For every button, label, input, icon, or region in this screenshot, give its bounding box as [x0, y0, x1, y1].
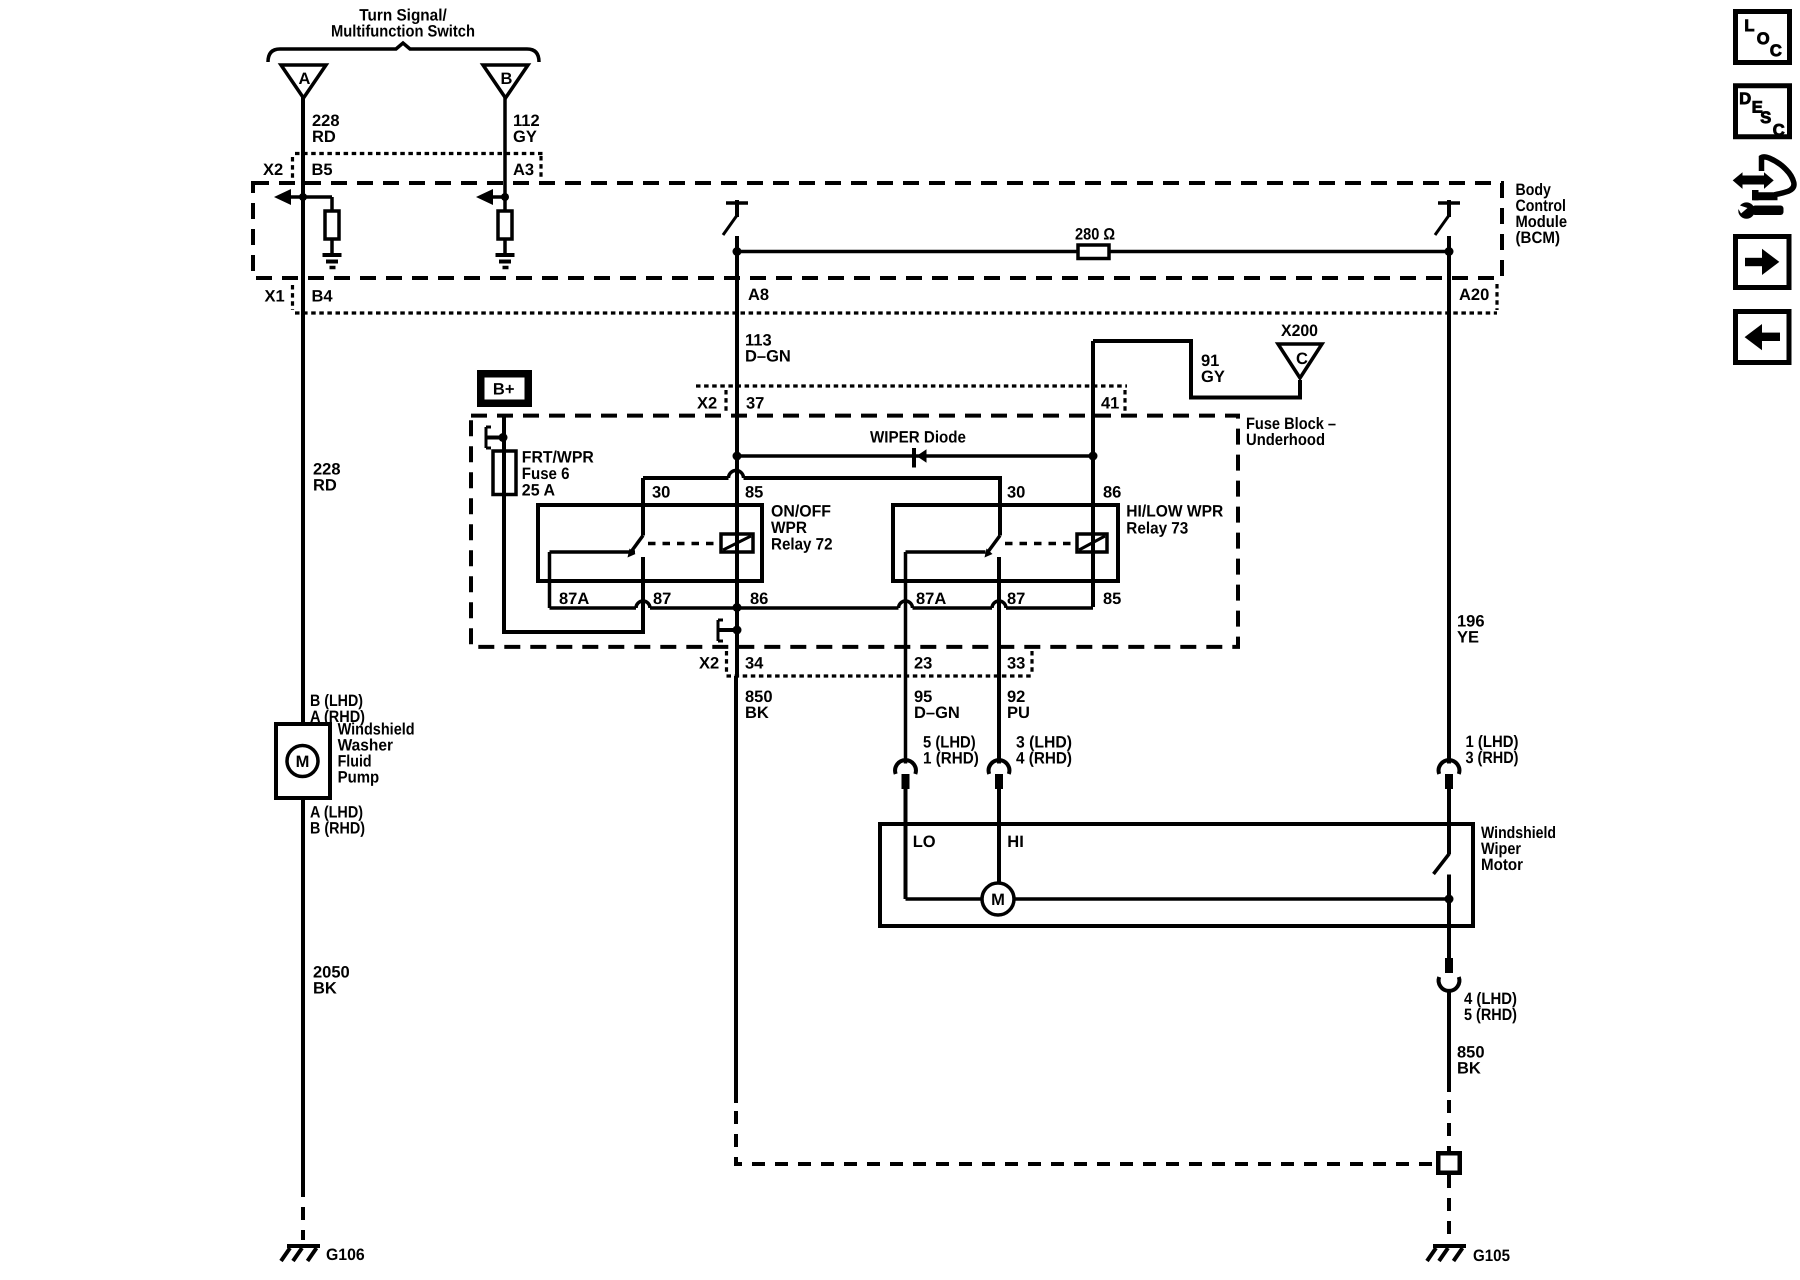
- svg-text:34: 34: [745, 655, 764, 673]
- svg-text:A8: A8: [748, 286, 769, 304]
- svg-text:Underhood: Underhood: [1246, 431, 1325, 449]
- svg-text:C: C: [1296, 350, 1308, 368]
- svg-text:S: S: [1760, 109, 1771, 127]
- svg-text:A3: A3: [513, 161, 534, 179]
- svg-text:ON/OFF: ON/OFF: [771, 503, 831, 521]
- svg-text:HI: HI: [1007, 833, 1024, 851]
- svg-text:Relay 73: Relay 73: [1126, 520, 1188, 538]
- svg-text:BK: BK: [313, 980, 337, 998]
- svg-text:RD: RD: [312, 128, 336, 146]
- svg-text:B+: B+: [493, 381, 515, 399]
- svg-text:1 (RHD): 1 (RHD): [923, 750, 979, 768]
- svg-text:87: 87: [653, 590, 671, 608]
- svg-text:C: C: [1773, 122, 1785, 140]
- svg-text:O: O: [1757, 30, 1770, 48]
- svg-text:25 A: 25 A: [522, 482, 555, 500]
- svg-text:X2: X2: [699, 655, 719, 673]
- svg-text:D–GN: D–GN: [914, 704, 960, 722]
- svg-text:PU: PU: [1007, 704, 1030, 722]
- svg-text:B: B: [501, 70, 513, 88]
- svg-text:Multifunction Switch: Multifunction Switch: [331, 23, 475, 41]
- svg-text:G106: G106: [326, 1246, 365, 1264]
- svg-text:BK: BK: [1457, 1060, 1481, 1078]
- svg-text:BK: BK: [745, 704, 769, 722]
- svg-text:WIPER Diode: WIPER Diode: [870, 429, 966, 447]
- svg-text:X2: X2: [697, 395, 717, 413]
- svg-text:30: 30: [1007, 484, 1025, 502]
- svg-text:Fuse 6: Fuse 6: [522, 465, 570, 483]
- svg-text:23: 23: [914, 655, 932, 673]
- svg-text:WPR: WPR: [771, 519, 807, 537]
- svg-text:Motor: Motor: [1481, 856, 1524, 874]
- svg-text:G105: G105: [1473, 1247, 1510, 1265]
- svg-text:RD: RD: [313, 477, 337, 495]
- svg-text:30: 30: [652, 484, 670, 502]
- svg-text:X1: X1: [265, 288, 285, 306]
- svg-text:X200: X200: [1281, 322, 1318, 340]
- svg-text:87A: 87A: [916, 590, 946, 608]
- svg-text:37: 37: [746, 395, 764, 413]
- svg-text:M: M: [296, 753, 310, 771]
- svg-text:(BCM): (BCM): [1516, 229, 1561, 247]
- svg-text:86: 86: [1103, 484, 1121, 502]
- svg-text:A20: A20: [1459, 286, 1489, 304]
- svg-text:86: 86: [750, 590, 768, 608]
- svg-text:B5: B5: [312, 161, 333, 179]
- svg-text:Relay 72: Relay 72: [771, 536, 833, 554]
- svg-text:M: M: [991, 891, 1005, 909]
- svg-text:B4: B4: [312, 288, 334, 306]
- svg-text:5 (RHD): 5 (RHD): [1464, 1006, 1517, 1024]
- svg-text:87A: 87A: [559, 590, 589, 608]
- svg-text:4 (RHD): 4 (RHD): [1016, 750, 1072, 768]
- svg-text:B (RHD): B (RHD): [310, 820, 365, 838]
- svg-text:L: L: [1744, 17, 1754, 35]
- svg-text:GY: GY: [513, 128, 537, 146]
- svg-text:87: 87: [1007, 590, 1025, 608]
- svg-text:41: 41: [1101, 395, 1119, 413]
- svg-text:D–GN: D–GN: [745, 348, 791, 366]
- svg-text:33: 33: [1007, 655, 1025, 673]
- svg-text:FRT/WPR: FRT/WPR: [522, 449, 594, 467]
- svg-text:GY: GY: [1201, 368, 1225, 386]
- svg-text:Pump: Pump: [338, 769, 380, 787]
- svg-text:HI/LOW WPR: HI/LOW WPR: [1126, 503, 1223, 521]
- svg-text:3 (RHD): 3 (RHD): [1466, 749, 1519, 767]
- svg-text:280 Ω: 280 Ω: [1075, 226, 1115, 244]
- svg-text:YE: YE: [1457, 629, 1479, 647]
- svg-text:85: 85: [1103, 590, 1121, 608]
- svg-text:LO: LO: [913, 833, 936, 851]
- svg-text:A: A: [299, 70, 311, 88]
- svg-text:C: C: [1770, 42, 1782, 60]
- svg-text:D: D: [1739, 90, 1751, 108]
- svg-text:85: 85: [745, 484, 763, 502]
- svg-text:X2: X2: [263, 161, 283, 179]
